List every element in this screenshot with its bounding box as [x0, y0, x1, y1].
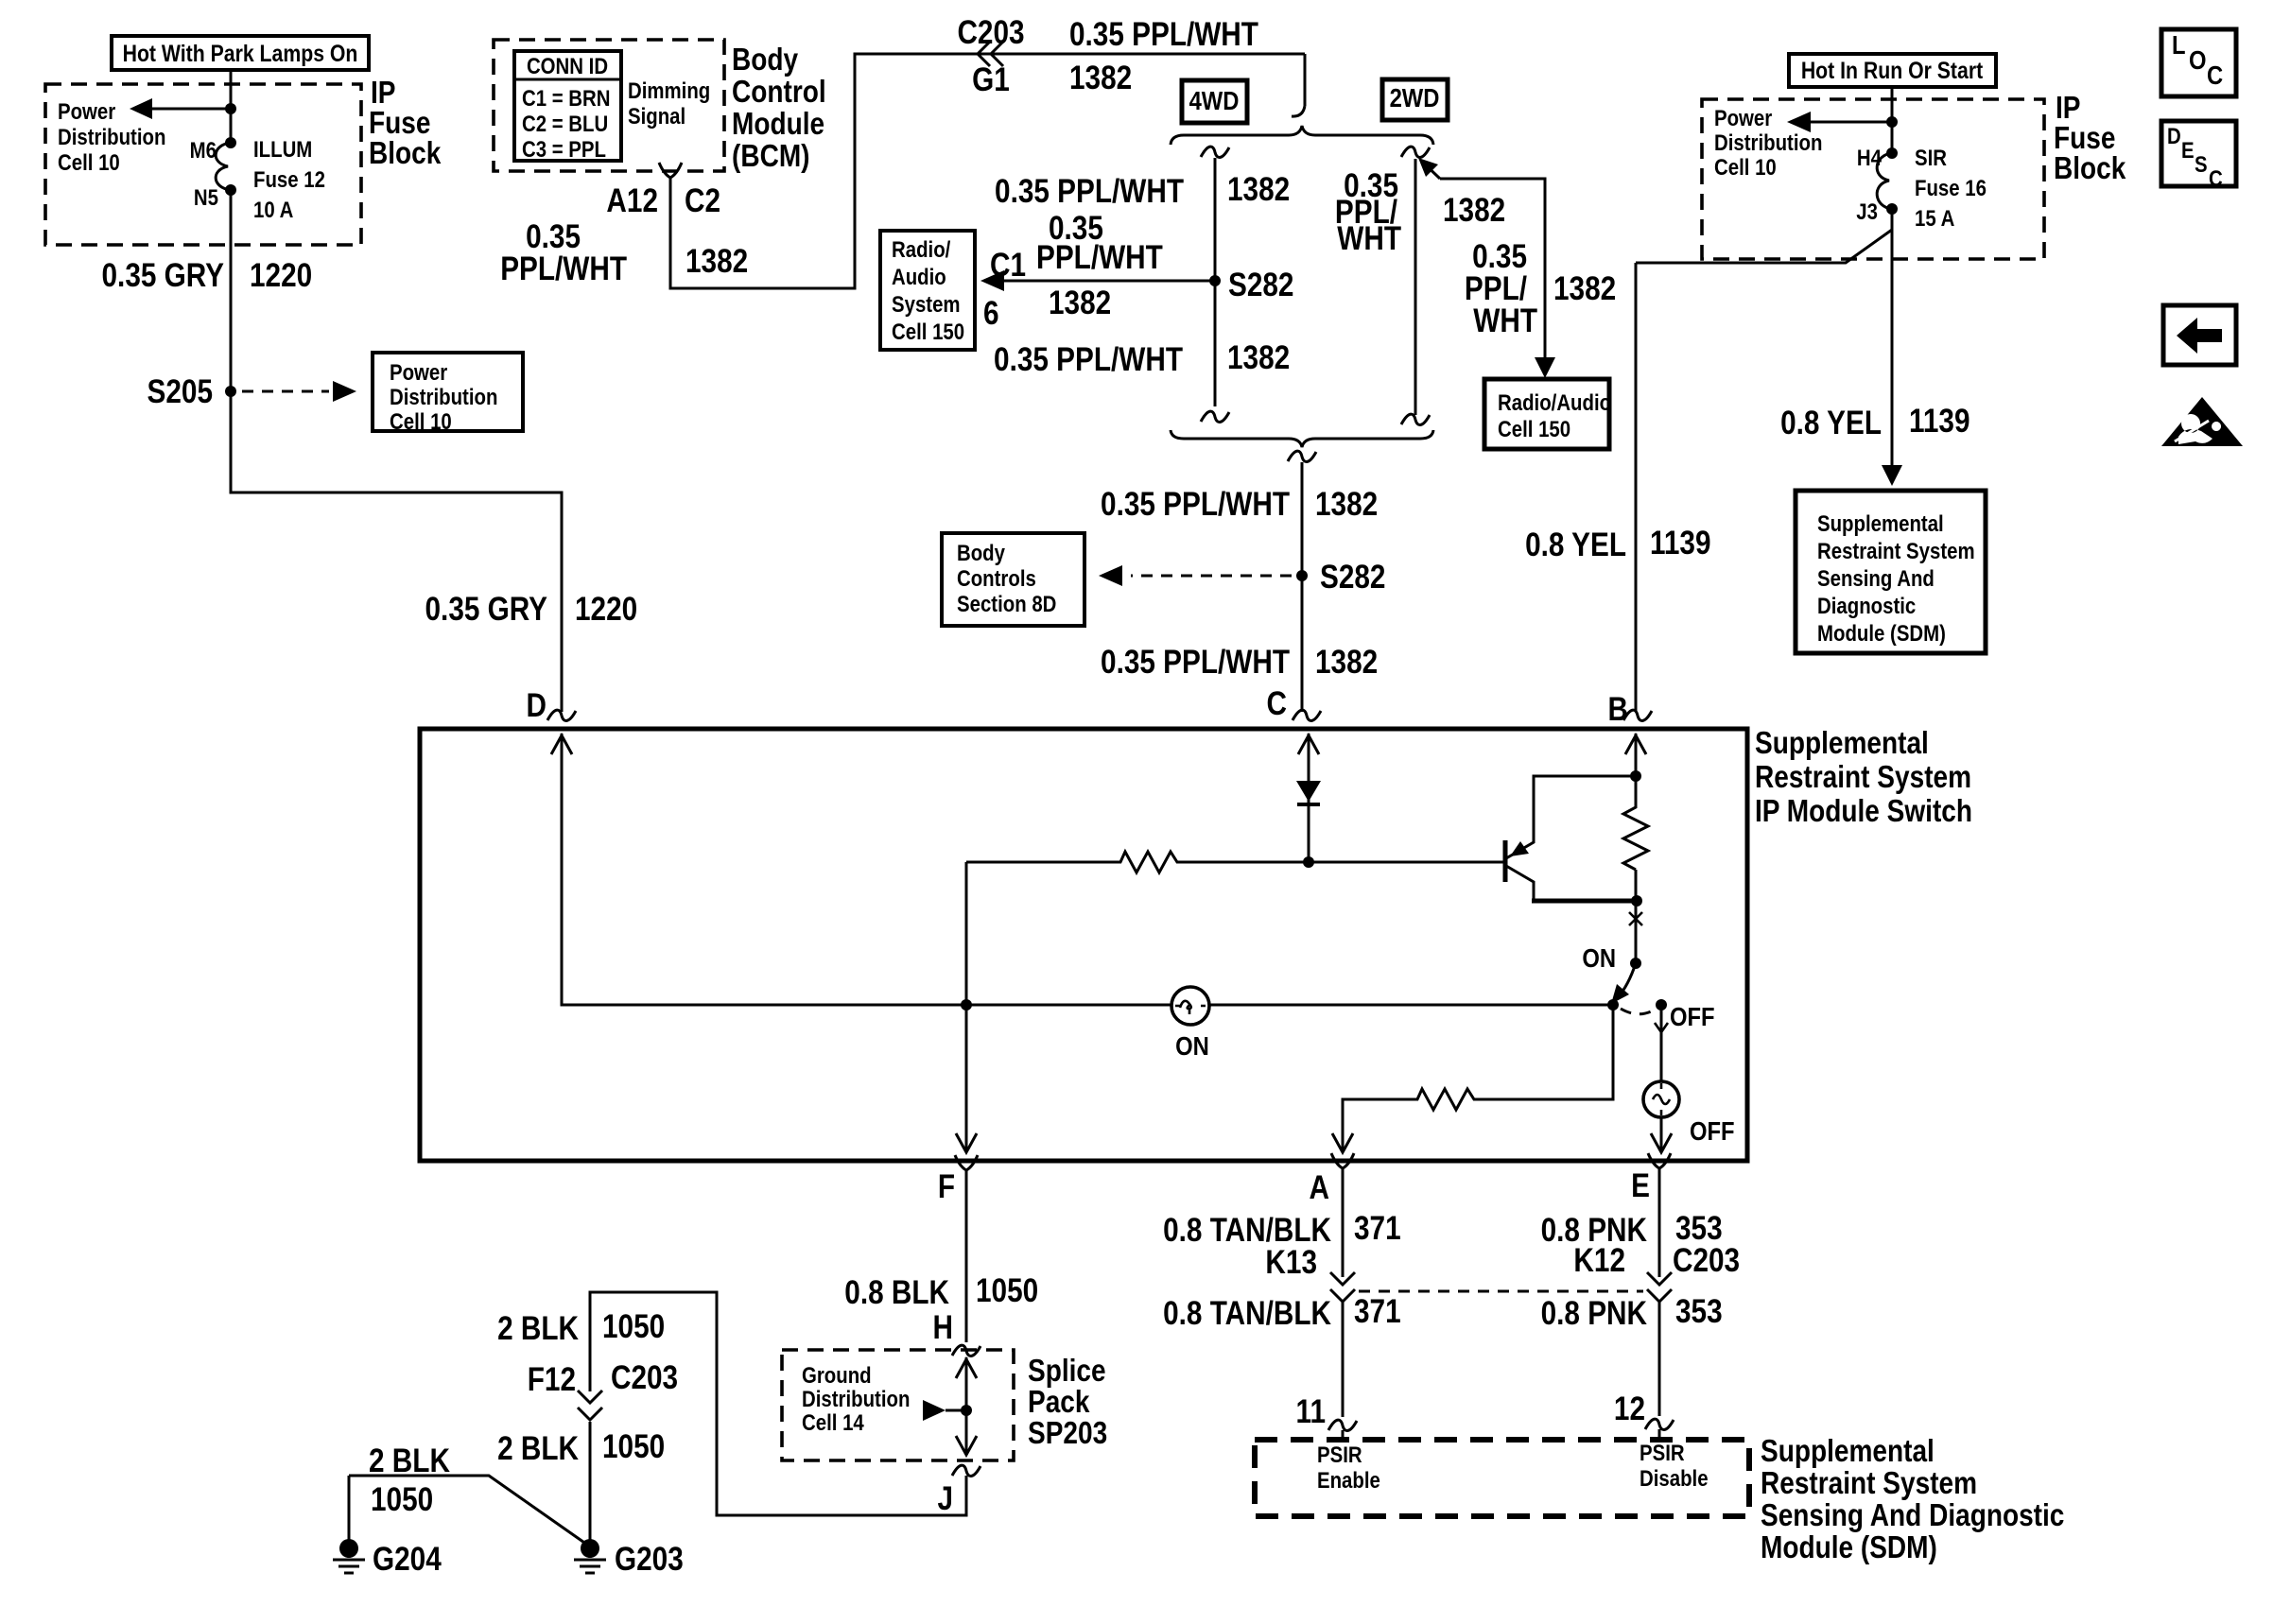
svg-text:E: E — [1631, 1167, 1650, 1204]
svg-text:N5: N5 — [194, 184, 218, 210]
svg-text:353: 353 — [1675, 1293, 1723, 1330]
svg-text:Cell 10: Cell 10 — [58, 149, 120, 175]
svg-text:1220: 1220 — [575, 591, 637, 628]
svg-text:L: L — [2172, 29, 2186, 60]
svg-text:Distribution: Distribution — [802, 1386, 910, 1411]
svg-text:2 BLK: 2 BLK — [497, 1310, 579, 1347]
svg-text:S282: S282 — [1320, 559, 1385, 596]
svg-text:F: F — [938, 1168, 955, 1205]
svg-text:0.35 PPL/WHT: 0.35 PPL/WHT — [1069, 16, 1258, 53]
svg-text:0.35 PPL/WHT: 0.35 PPL/WHT — [1101, 644, 1290, 681]
svg-text:OFF: OFF — [1670, 1001, 1715, 1031]
svg-text:10 A: 10 A — [253, 197, 293, 222]
svg-text:1382: 1382 — [685, 243, 748, 280]
svg-text:SIR: SIR — [1915, 145, 1947, 170]
svg-text:C203: C203 — [957, 14, 1024, 51]
svg-text:C203: C203 — [611, 1359, 678, 1396]
svg-text:K13: K13 — [1265, 1244, 1317, 1281]
svg-text:1139: 1139 — [1650, 525, 1711, 561]
svg-text:S: S — [2195, 151, 2208, 177]
svg-text:371: 371 — [1354, 1293, 1401, 1330]
svg-text:G203: G203 — [615, 1541, 684, 1578]
svg-text:C1 = BRN: C1 = BRN — [522, 85, 610, 111]
svg-text:1382: 1382 — [1227, 339, 1290, 376]
svg-text:1382: 1382 — [1049, 285, 1111, 321]
svg-text:Power: Power — [390, 359, 448, 385]
svg-text:1050: 1050 — [371, 1481, 433, 1518]
svg-text:Signal: Signal — [628, 103, 685, 129]
svg-text:1382: 1382 — [1315, 486, 1378, 523]
svg-text:Power: Power — [1714, 105, 1773, 130]
svg-text:15 A: 15 A — [1915, 205, 1954, 231]
svg-text:Control: Control — [732, 75, 826, 110]
svg-text:Restraint System: Restraint System — [1755, 760, 1971, 795]
svg-text:Distribution: Distribution — [390, 384, 497, 409]
svg-text:Sensing And: Sensing And — [1817, 565, 1935, 591]
svg-text:Cell 150: Cell 150 — [892, 319, 964, 344]
svg-text:C: C — [2207, 60, 2223, 90]
svg-text:1220: 1220 — [250, 257, 312, 294]
svg-text:0.8 YEL: 0.8 YEL — [1780, 405, 1882, 441]
svg-text:ILLUM: ILLUM — [253, 136, 312, 162]
svg-text:0.35 PPL/WHT: 0.35 PPL/WHT — [995, 173, 1184, 210]
svg-text:Restraint System: Restraint System — [1817, 538, 1975, 563]
svg-text:Ground: Ground — [802, 1362, 872, 1388]
svg-text:F12: F12 — [528, 1361, 576, 1398]
svg-text:C2: C2 — [685, 182, 720, 219]
svg-text:H4: H4 — [1857, 145, 1883, 170]
svg-text:0.8 TAN/BLK: 0.8 TAN/BLK — [1163, 1212, 1331, 1249]
svg-text:WHT: WHT — [1337, 220, 1401, 257]
svg-text:J: J — [937, 1480, 953, 1517]
svg-text:0.35 GRY: 0.35 GRY — [425, 591, 548, 628]
svg-text:Diagnostic: Diagnostic — [1817, 593, 1916, 618]
svg-text:Controls: Controls — [957, 565, 1036, 591]
svg-text:Power: Power — [58, 98, 116, 124]
svg-text:Dimming: Dimming — [628, 78, 710, 103]
svg-text:11: 11 — [1296, 1393, 1326, 1430]
svg-text:Block: Block — [2054, 151, 2126, 186]
svg-text:PPL/WHT: PPL/WHT — [500, 251, 627, 287]
svg-text:0.35 GRY: 0.35 GRY — [102, 257, 225, 294]
svg-text:0.8 BLK: 0.8 BLK — [844, 1274, 949, 1311]
svg-text:S205: S205 — [147, 373, 213, 410]
svg-text:Cell 14: Cell 14 — [802, 1409, 864, 1435]
svg-text:ON: ON — [1582, 942, 1616, 973]
svg-text:Sensing And Diagnostic: Sensing And Diagnostic — [1761, 1498, 2064, 1533]
svg-text:0.8 PNK: 0.8 PNK — [1541, 1295, 1648, 1332]
svg-text:1050: 1050 — [602, 1308, 665, 1345]
svg-text:K12: K12 — [1573, 1242, 1625, 1279]
svg-text:E: E — [2181, 137, 2195, 163]
svg-text:1050: 1050 — [976, 1272, 1038, 1309]
svg-text:PSIR: PSIR — [1640, 1440, 1685, 1465]
svg-text:1382: 1382 — [1069, 60, 1132, 96]
svg-text:0.35 PPL/WHT: 0.35 PPL/WHT — [1101, 486, 1290, 523]
svg-text:Cell 150: Cell 150 — [1498, 416, 1570, 441]
svg-text:Supplemental: Supplemental — [1755, 726, 1929, 761]
svg-text:C3 = PPL: C3 = PPL — [522, 136, 606, 162]
svg-text:Enable: Enable — [1317, 1467, 1380, 1493]
svg-text:2WD: 2WD — [1390, 82, 1440, 112]
svg-text:Radio/Audio: Radio/Audio — [1498, 389, 1611, 415]
svg-text:Splice: Splice — [1028, 1354, 1106, 1389]
svg-text:Module (SDM): Module (SDM) — [1817, 620, 1946, 646]
svg-text:1382: 1382 — [1315, 644, 1378, 681]
svg-text:1382: 1382 — [1227, 171, 1290, 208]
svg-text:B: B — [1608, 691, 1628, 728]
svg-text:1139: 1139 — [1909, 403, 1970, 440]
svg-text:2 BLK: 2 BLK — [497, 1430, 579, 1467]
svg-text:0.8 TAN/BLK: 0.8 TAN/BLK — [1163, 1295, 1331, 1332]
svg-text:Supplemental: Supplemental — [1761, 1434, 1935, 1469]
svg-text:Cell 10: Cell 10 — [390, 408, 452, 434]
svg-text:C: C — [1267, 685, 1287, 722]
svg-text:Radio/: Radio/ — [892, 236, 950, 262]
svg-text:Fuse 16: Fuse 16 — [1915, 175, 1987, 200]
svg-text:OFF: OFF — [1690, 1115, 1735, 1146]
svg-text:WHT: WHT — [1473, 302, 1537, 339]
svg-text:1382: 1382 — [1443, 192, 1505, 229]
svg-text:(BCM): (BCM) — [732, 139, 810, 174]
svg-text:12: 12 — [1614, 1391, 1645, 1427]
svg-text:Block: Block — [369, 136, 442, 171]
svg-text:Supplemental: Supplemental — [1817, 510, 1944, 536]
svg-text:PPL/WHT: PPL/WHT — [1036, 239, 1163, 276]
svg-text:C: C — [2209, 165, 2223, 191]
svg-text:Disable: Disable — [1640, 1465, 1709, 1491]
svg-text:C203: C203 — [1673, 1242, 1740, 1279]
svg-text:System: System — [892, 291, 961, 317]
svg-text:CONN ID: CONN ID — [527, 53, 608, 78]
svg-text:SP203: SP203 — [1028, 1416, 1107, 1451]
svg-text:Distribution: Distribution — [1714, 130, 1822, 155]
svg-text:0.35 PPL/WHT: 0.35 PPL/WHT — [994, 341, 1183, 378]
svg-text:Restraint System: Restraint System — [1761, 1466, 1977, 1501]
svg-text:Body: Body — [732, 43, 798, 78]
svg-text:Hot With Park Lamps On: Hot With Park Lamps On — [123, 40, 358, 66]
svg-text:A: A — [1310, 1169, 1329, 1206]
svg-text:H: H — [933, 1309, 953, 1346]
svg-text:ON: ON — [1175, 1030, 1209, 1061]
svg-text:0.8 YEL: 0.8 YEL — [1525, 527, 1626, 563]
svg-text:Body: Body — [957, 540, 1006, 565]
svg-text:C2 = BLU: C2 = BLU — [522, 111, 608, 136]
svg-text:Pack: Pack — [1028, 1385, 1090, 1420]
svg-text:1382: 1382 — [1553, 270, 1616, 307]
svg-text:G204: G204 — [373, 1541, 442, 1578]
svg-text:353: 353 — [1675, 1210, 1723, 1247]
svg-text:0.35: 0.35 — [1472, 238, 1527, 275]
svg-text:Distribution: Distribution — [58, 124, 165, 149]
svg-text:Section 8D: Section 8D — [957, 591, 1056, 616]
svg-text:J3: J3 — [1856, 199, 1878, 224]
svg-text:O: O — [2189, 44, 2207, 75]
svg-text:Fuse 12: Fuse 12 — [253, 166, 325, 192]
svg-text:0.35: 0.35 — [526, 218, 581, 255]
svg-text:G1: G1 — [972, 61, 1010, 98]
svg-text:Module: Module — [732, 107, 824, 142]
svg-text:371: 371 — [1354, 1210, 1401, 1247]
svg-text:Cell 10: Cell 10 — [1714, 154, 1777, 180]
svg-text:A12: A12 — [606, 182, 658, 219]
svg-text:PSIR: PSIR — [1317, 1442, 1362, 1467]
svg-text:4WD: 4WD — [1189, 85, 1240, 115]
svg-text:2 BLK: 2 BLK — [369, 1443, 450, 1479]
svg-text:Audio: Audio — [892, 264, 946, 289]
svg-text:S282: S282 — [1228, 267, 1293, 303]
svg-text:C1: C1 — [990, 247, 1026, 284]
svg-text:PPL/: PPL/ — [1465, 270, 1527, 307]
svg-text:D: D — [2167, 123, 2181, 148]
svg-text:1050: 1050 — [602, 1428, 665, 1465]
svg-text:Module (SDM): Module (SDM) — [1761, 1530, 1937, 1565]
svg-text:Hot In Run Or Start: Hot In Run Or Start — [1801, 57, 1984, 83]
svg-text:IP Module Switch: IP Module Switch — [1755, 794, 1972, 829]
svg-text:6: 6 — [983, 295, 999, 332]
svg-text:D: D — [527, 687, 547, 724]
svg-text:M6: M6 — [190, 137, 217, 163]
